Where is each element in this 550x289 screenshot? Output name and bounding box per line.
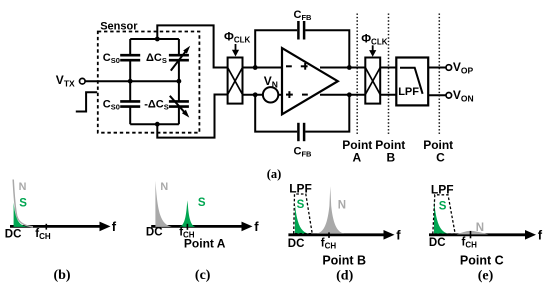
wire CH1 to VN bottom [243, 94, 264, 96]
svg-text:(d): (d) [336, 268, 353, 283]
feedback wire top with node [255, 30, 349, 67]
node junction opamp output top [347, 65, 352, 70]
svg-text:fCH: fCH [321, 237, 337, 250]
wire top exit from sensor to chopper CH1 [157, 25, 228, 67]
svg-text:DC: DC [429, 237, 446, 249]
wire opamp output bottom [320, 94, 365, 96]
plot e tick fCH [470, 231, 472, 238]
clock arrow 2 [369, 45, 376, 57]
plot c signal peak S [179, 200, 195, 227]
svg-text:f: f [254, 219, 259, 234]
plot e LPF dashed response [433, 195, 455, 234]
op-amp U1 [282, 48, 338, 114]
wire sensor left branch [129, 39, 131, 124]
plot c noise fill N [155, 181, 171, 227]
capacitor delta CS variable top [169, 46, 190, 71]
sensor dashed box [98, 32, 200, 133]
capacitor CFB bottom [298, 123, 304, 141]
svg-text:N: N [338, 200, 346, 212]
plot b axis with arrow [10, 222, 111, 232]
plot b signal fill S [14, 203, 30, 227]
wire LPF to VOP [428, 67, 446, 69]
node junction opamp input bottom [253, 92, 258, 97]
LPF block [396, 58, 428, 106]
capacitor CFB top [298, 21, 304, 40]
plot d LPF dashed response [294, 194, 313, 234]
svg-text:ΦCLK: ΦCLK [361, 31, 388, 46]
svg-text:VTX: VTX [56, 73, 75, 88]
svg-text:LPF: LPF [398, 86, 419, 98]
plot e noise bump N [457, 231, 489, 235]
svg-text:S: S [297, 199, 305, 211]
noise source VN [263, 87, 278, 102]
svg-text:(b): (b) [53, 268, 70, 283]
node junction sensor top [155, 37, 160, 42]
svg-text:CS0: CS0 [103, 99, 120, 112]
svg-text:VOP: VOP [453, 60, 474, 75]
svg-text:VN: VN [264, 74, 278, 89]
svg-text:-ΔCS: -ΔCS [144, 99, 169, 112]
svg-text:f: f [112, 219, 117, 234]
svg-text:DC: DC [288, 238, 305, 250]
svg-text:S: S [198, 197, 206, 209]
wire opamp output top [320, 67, 365, 69]
svg-text:N: N [19, 181, 27, 193]
label Point B [375, 138, 405, 165]
wire VN to opamp bottom [278, 94, 290, 96]
svg-text:(c): (c) [195, 268, 211, 283]
svg-text:S: S [439, 201, 447, 213]
wire CH1 to opamp top [243, 67, 291, 69]
chopper CH2 box with cross [365, 58, 380, 104]
wire VTX middle rail [85, 80, 179, 82]
plot e axis with arrow [429, 230, 536, 240]
clock arrow 1 [232, 44, 239, 57]
node junction sensor bottom [155, 122, 160, 127]
svg-text:A: A [352, 151, 361, 165]
svg-text:f: f [396, 227, 401, 242]
svg-text:Sensor: Sensor [100, 21, 138, 33]
svg-text:Point C: Point C [460, 253, 504, 267]
wire sensor bottom branch [130, 123, 179, 125]
label Point A [342, 138, 372, 165]
svg-text:N: N [160, 181, 168, 193]
wire sensor right branch [178, 39, 180, 124]
chopper CH1 box with cross [228, 58, 243, 104]
svg-text:LPF: LPF [431, 183, 454, 197]
dotted line point C [438, 14, 440, 135]
node junction middle left [128, 79, 133, 84]
node VON terminal [446, 93, 452, 99]
svg-text:Point A: Point A [184, 237, 226, 251]
svg-text:N: N [476, 222, 484, 234]
svg-text:CFB: CFB [294, 146, 313, 159]
plot b noise curve N [13, 180, 33, 227]
TX step waveform symbol [76, 92, 97, 111]
node VOP terminal [446, 65, 452, 71]
svg-text:f: f [538, 227, 543, 242]
capacitor minus delta CS variable bottom [169, 96, 189, 118]
plot c tick fCH [186, 224, 188, 230]
wire CH2 to LPF top [380, 67, 396, 69]
svg-text:ΔCS: ΔCS [146, 52, 167, 65]
feedback wire bottom [255, 95, 349, 132]
label Point C [423, 138, 453, 165]
capacitor CS0 bottom [120, 101, 140, 106]
plot d axis with arrow [288, 230, 394, 240]
capacitor CS0 top [120, 55, 140, 60]
svg-text:(a): (a) [267, 167, 282, 181]
wire CH2 to LPF bottom [380, 94, 396, 96]
plot b tick fCH [45, 224, 47, 230]
node junction middle right [177, 79, 182, 84]
svg-text:DC: DC [146, 227, 163, 239]
svg-text:(e): (e) [478, 268, 494, 283]
plot c axis with arrow [151, 222, 252, 232]
svg-text:fCH: fCH [462, 236, 478, 249]
wire LPF to VON [428, 94, 446, 96]
svg-text:fCH: fCH [35, 228, 51, 241]
node VTX terminal [80, 78, 86, 84]
node junction opamp input top [253, 65, 258, 70]
dotted line point B [388, 14, 390, 135]
wire sensor top branch [130, 38, 179, 40]
svg-text:ΦCLK: ΦCLK [224, 29, 251, 44]
node junction opamp output bottom [347, 92, 352, 97]
svg-text:DC: DC [5, 229, 22, 241]
svg-text:C: C [436, 151, 445, 165]
svg-text:B: B [386, 151, 395, 165]
svg-text:CFB: CFB [294, 9, 313, 22]
plot d signal fill S [295, 204, 308, 234]
plot d noise peak N [317, 186, 344, 233]
wire bottom exit from sensor to chopper CH1 [157, 95, 228, 138]
svg-text:LPF: LPF [289, 181, 312, 195]
svg-text:S: S [19, 198, 27, 210]
dotted line point A [356, 14, 358, 135]
plot e signal fill S [434, 200, 448, 233]
svg-text:CS0: CS0 [103, 52, 120, 65]
svg-text:Point B: Point B [322, 253, 366, 267]
svg-text:VON: VON [453, 88, 474, 103]
plot d tick fCH [328, 232, 330, 238]
